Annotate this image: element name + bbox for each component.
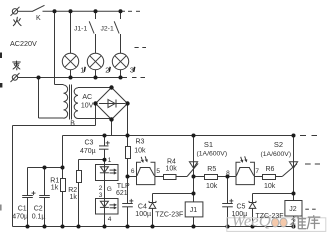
svg-text:C3: C3 bbox=[85, 140, 94, 147]
svg-text:10k: 10k bbox=[134, 147, 146, 154]
svg-text:10V: 10V bbox=[81, 103, 94, 110]
svg-text:10k: 10k bbox=[166, 165, 178, 172]
svg-text:C1: C1 bbox=[18, 206, 27, 213]
svg-text:3: 3 bbox=[99, 192, 103, 199]
svg-text:(1A/600V): (1A/600V) bbox=[261, 151, 292, 158]
svg-text:10k: 10k bbox=[264, 183, 276, 190]
svg-text:AC220V: AC220V bbox=[10, 39, 37, 48]
svg-text:1: 1 bbox=[108, 157, 112, 164]
svg-text:C4: C4 bbox=[138, 203, 147, 210]
svg-text:10k: 10k bbox=[206, 183, 218, 190]
svg-text:R6: R6 bbox=[266, 166, 275, 173]
svg-text:470µ: 470µ bbox=[80, 148, 96, 155]
svg-text:7: 7 bbox=[255, 168, 259, 175]
svg-text:AC: AC bbox=[82, 94, 92, 101]
svg-text:4: 4 bbox=[108, 216, 112, 223]
svg-text:TZC-23F: TZC-23F bbox=[155, 211, 183, 218]
svg-text:8: 8 bbox=[226, 170, 230, 177]
svg-text:J2: J2 bbox=[289, 206, 297, 213]
svg-text:1: 1 bbox=[80, 66, 84, 75]
svg-text:100µ: 100µ bbox=[232, 211, 248, 218]
svg-text:1k: 1k bbox=[70, 194, 78, 201]
svg-text:K: K bbox=[36, 15, 41, 22]
svg-text:2: 2 bbox=[99, 185, 103, 192]
svg-text:621: 621 bbox=[116, 190, 128, 197]
svg-text:1k: 1k bbox=[51, 185, 59, 192]
svg-text:B: B bbox=[70, 121, 75, 128]
svg-text:0.1µ: 0.1µ bbox=[32, 214, 46, 221]
svg-text:J1: J1 bbox=[190, 207, 198, 214]
svg-text:5: 5 bbox=[156, 168, 160, 175]
svg-text:J2-1: J2-1 bbox=[101, 26, 114, 33]
svg-text:S1: S1 bbox=[204, 140, 213, 149]
svg-text:3: 3 bbox=[130, 66, 134, 75]
svg-text:100µ: 100µ bbox=[135, 211, 151, 218]
svg-text:6: 6 bbox=[131, 168, 135, 175]
svg-text:C5: C5 bbox=[237, 204, 246, 211]
svg-text:(1A/600V): (1A/600V) bbox=[197, 150, 228, 157]
svg-text:TZC-23F: TZC-23F bbox=[256, 213, 284, 220]
svg-text:R5: R5 bbox=[207, 166, 216, 173]
svg-text:R3: R3 bbox=[136, 138, 145, 145]
svg-text:470µ: 470µ bbox=[12, 214, 28, 221]
svg-text:G: G bbox=[107, 186, 112, 193]
svg-text:C2: C2 bbox=[34, 206, 43, 213]
svg-text:J1-1: J1-1 bbox=[74, 26, 87, 33]
svg-text:S2: S2 bbox=[274, 140, 283, 149]
svg-text:2: 2 bbox=[105, 66, 109, 75]
